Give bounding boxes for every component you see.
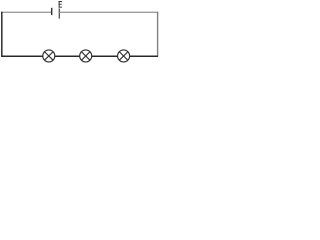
wire top-left segment xyxy=(1,11,52,13)
wire bottom segment 2 xyxy=(55,55,80,57)
wire bottom segment 1 xyxy=(1,55,43,57)
lamp L3 xyxy=(118,50,130,62)
lamp L1 xyxy=(43,50,55,62)
wire right vertical xyxy=(157,12,159,57)
battery cell short plate (negative) xyxy=(51,8,53,15)
lamp L2 xyxy=(80,50,92,62)
wire bottom segment 4 xyxy=(130,55,158,57)
wire bottom segment 3 xyxy=(92,55,118,57)
wire left vertical xyxy=(1,12,3,57)
label E (emf) xyxy=(59,1,63,8)
battery cell long plate (positive) xyxy=(58,8,60,18)
wire top-right segment xyxy=(59,11,158,13)
